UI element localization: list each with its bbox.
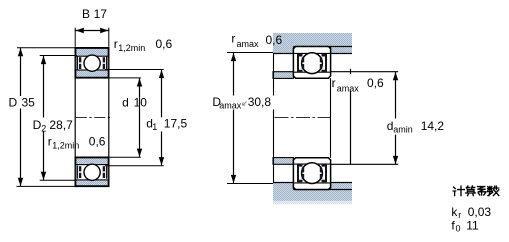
housing top shoulder line right: [331, 53, 352, 55]
svg-text:2: 2: [41, 124, 46, 134]
shaft shoulder top: [273, 72, 293, 79]
bottom section left seal: [76, 165, 78, 178]
svg-text:r: r: [458, 210, 461, 220]
housing bottom shoulder line right: [331, 182, 352, 184]
dim D2 top arrow: [41, 56, 46, 64]
svg-text:0,6: 0,6: [89, 135, 106, 149]
centerline left axis: [76, 117, 110, 119]
svg-text:B: B: [82, 7, 90, 21]
right top left seal: [297, 54, 303, 72]
right top outer ring inner edge: [294, 52, 330, 54]
dim ramax mid line: [350, 91, 352, 165]
centerline right axis: [275, 117, 332, 119]
housing top shoulder face right: [330, 47, 332, 54]
right top inner ring top edge: [294, 71, 330, 73]
svg-text:r: r: [114, 37, 118, 51]
dim D bottom arrow: [18, 178, 23, 186]
dim D2 extension line bottom: [40, 179, 77, 181]
dim D line: [20, 48, 22, 96]
svg-text:amin: amin: [393, 125, 413, 135]
dim D2 bottom arrow: [41, 172, 46, 180]
top section inner ring band: [76, 70, 108, 77]
left bearing side face line right: [108, 78, 110, 158]
dim B left arrow: [76, 28, 84, 33]
right bearing top section outline: [293, 47, 330, 79]
Da extension line top left: [227, 52, 273, 54]
svg-text:11: 11: [466, 219, 479, 233]
svg-text:amax: amax: [337, 84, 360, 94]
svg-text:amax: amax: [237, 39, 260, 49]
left bearing side face line left: [74, 78, 76, 158]
right top ball: [302, 53, 323, 74]
right bottom ball: [302, 163, 323, 184]
svg-text:14,2: 14,2: [421, 119, 445, 133]
dim d top arrow: [137, 78, 142, 86]
dim d1 bottom arrow: [159, 157, 164, 165]
dim D2 extension line top: [40, 55, 77, 57]
svg-text:1,2min: 1,2min: [52, 141, 79, 151]
svg-text:30,8: 30,8: [248, 95, 272, 109]
svg-text:0,03: 0,03: [468, 205, 492, 219]
Da extension line bottom left: [227, 183, 273, 185]
housing bottom block: [273, 183, 352, 201]
svg-text:1,2min: 1,2min: [118, 43, 145, 53]
abutment face line: [273, 54, 275, 96]
top section left seal: [76, 56, 78, 69]
housing bottom seat line: [293, 189, 352, 191]
svg-text:D: D: [9, 96, 18, 110]
right bottom left seal: [297, 164, 303, 182]
dim ramax mid tick: [350, 69, 352, 74]
dim d1 extension line bottom: [105, 165, 164, 167]
leader hook 30,8: [243, 102, 247, 106]
dim Damax bottom arrow: [231, 175, 236, 183]
svg-text:1: 1: [152, 122, 157, 132]
bottom section outline: [75, 157, 109, 186]
dim d line: [139, 78, 141, 157]
bottom section inner ring band: [76, 158, 108, 165]
da extension line bottom right: [331, 163, 399, 165]
dim d bottom arrow: [137, 149, 142, 157]
dim B right arrow: [100, 28, 108, 33]
bearing OD face line through mid zone: [330, 78, 332, 158]
svg-text:0,6: 0,6: [156, 37, 173, 51]
dim B extension line left: [74, 28, 76, 47]
svg-text:amax: amax: [219, 101, 242, 111]
right bottom outer ring inner edge: [294, 182, 330, 184]
housing bottom shoulder face right: [330, 183, 332, 190]
housing top seat line: [293, 46, 352, 48]
svg-text:r: r: [231, 31, 235, 45]
top section outline: [75, 48, 109, 78]
dim d extension line top: [109, 77, 141, 79]
dim D extension line top: [17, 47, 75, 49]
svg-text:17,5: 17,5: [164, 117, 188, 131]
svg-text:0,6: 0,6: [266, 33, 283, 47]
svg-text:10: 10: [134, 95, 148, 109]
dim B line: [75, 30, 109, 32]
dim damin top arrow: [393, 72, 398, 80]
dim Damax line: [233, 53, 235, 96]
housing top shoulder face left: [292, 47, 294, 54]
right bottom inner ring bottom edge: [294, 163, 330, 165]
dim damin bottom arrow: [393, 156, 398, 164]
svg-text:r: r: [332, 76, 336, 90]
top section ball: [84, 55, 100, 71]
svg-text:d: d: [122, 95, 129, 109]
right bottom right seal: [322, 164, 328, 182]
dim D top arrow: [18, 48, 23, 56]
bottom section outer ring band: [76, 180, 108, 186]
bottom section ball: [84, 164, 100, 180]
housing bottom shoulder line left: [273, 182, 293, 184]
shaft shoulder bottom: [273, 158, 293, 165]
dim D2 line: [43, 56, 45, 118]
svg-text:0: 0: [456, 224, 461, 234]
housing top block: [273, 33, 352, 54]
dim d1 top arrow: [159, 70, 164, 78]
svg-text:D: D: [33, 118, 42, 132]
top section right seal: [106, 56, 108, 69]
dim Damax top arrow: [231, 53, 236, 61]
svg-text:r: r: [48, 135, 52, 149]
dim d extension line bottom: [109, 156, 141, 158]
svg-text:0,6: 0,6: [367, 76, 384, 90]
right top right seal: [322, 54, 328, 72]
da extension line top right: [331, 71, 399, 73]
svg-text:35: 35: [22, 96, 36, 110]
housing bottom shoulder face left: [292, 183, 294, 190]
svg-text:17: 17: [94, 7, 108, 21]
dim damin line: [395, 72, 397, 118]
housing top shoulder line left: [273, 53, 293, 55]
bottom section right seal: [106, 165, 108, 178]
dim B extension line right: [108, 28, 110, 47]
right bearing bottom section outline: [293, 158, 330, 190]
top section outer ring band: [76, 48, 108, 56]
label CJK 计算系数: [453, 186, 499, 196]
dim d1 extension line top: [105, 69, 164, 71]
svg-text:28,7: 28,7: [49, 118, 73, 132]
dim D extension line bottom: [17, 185, 76, 187]
dim d1 line: [161, 70, 163, 117]
